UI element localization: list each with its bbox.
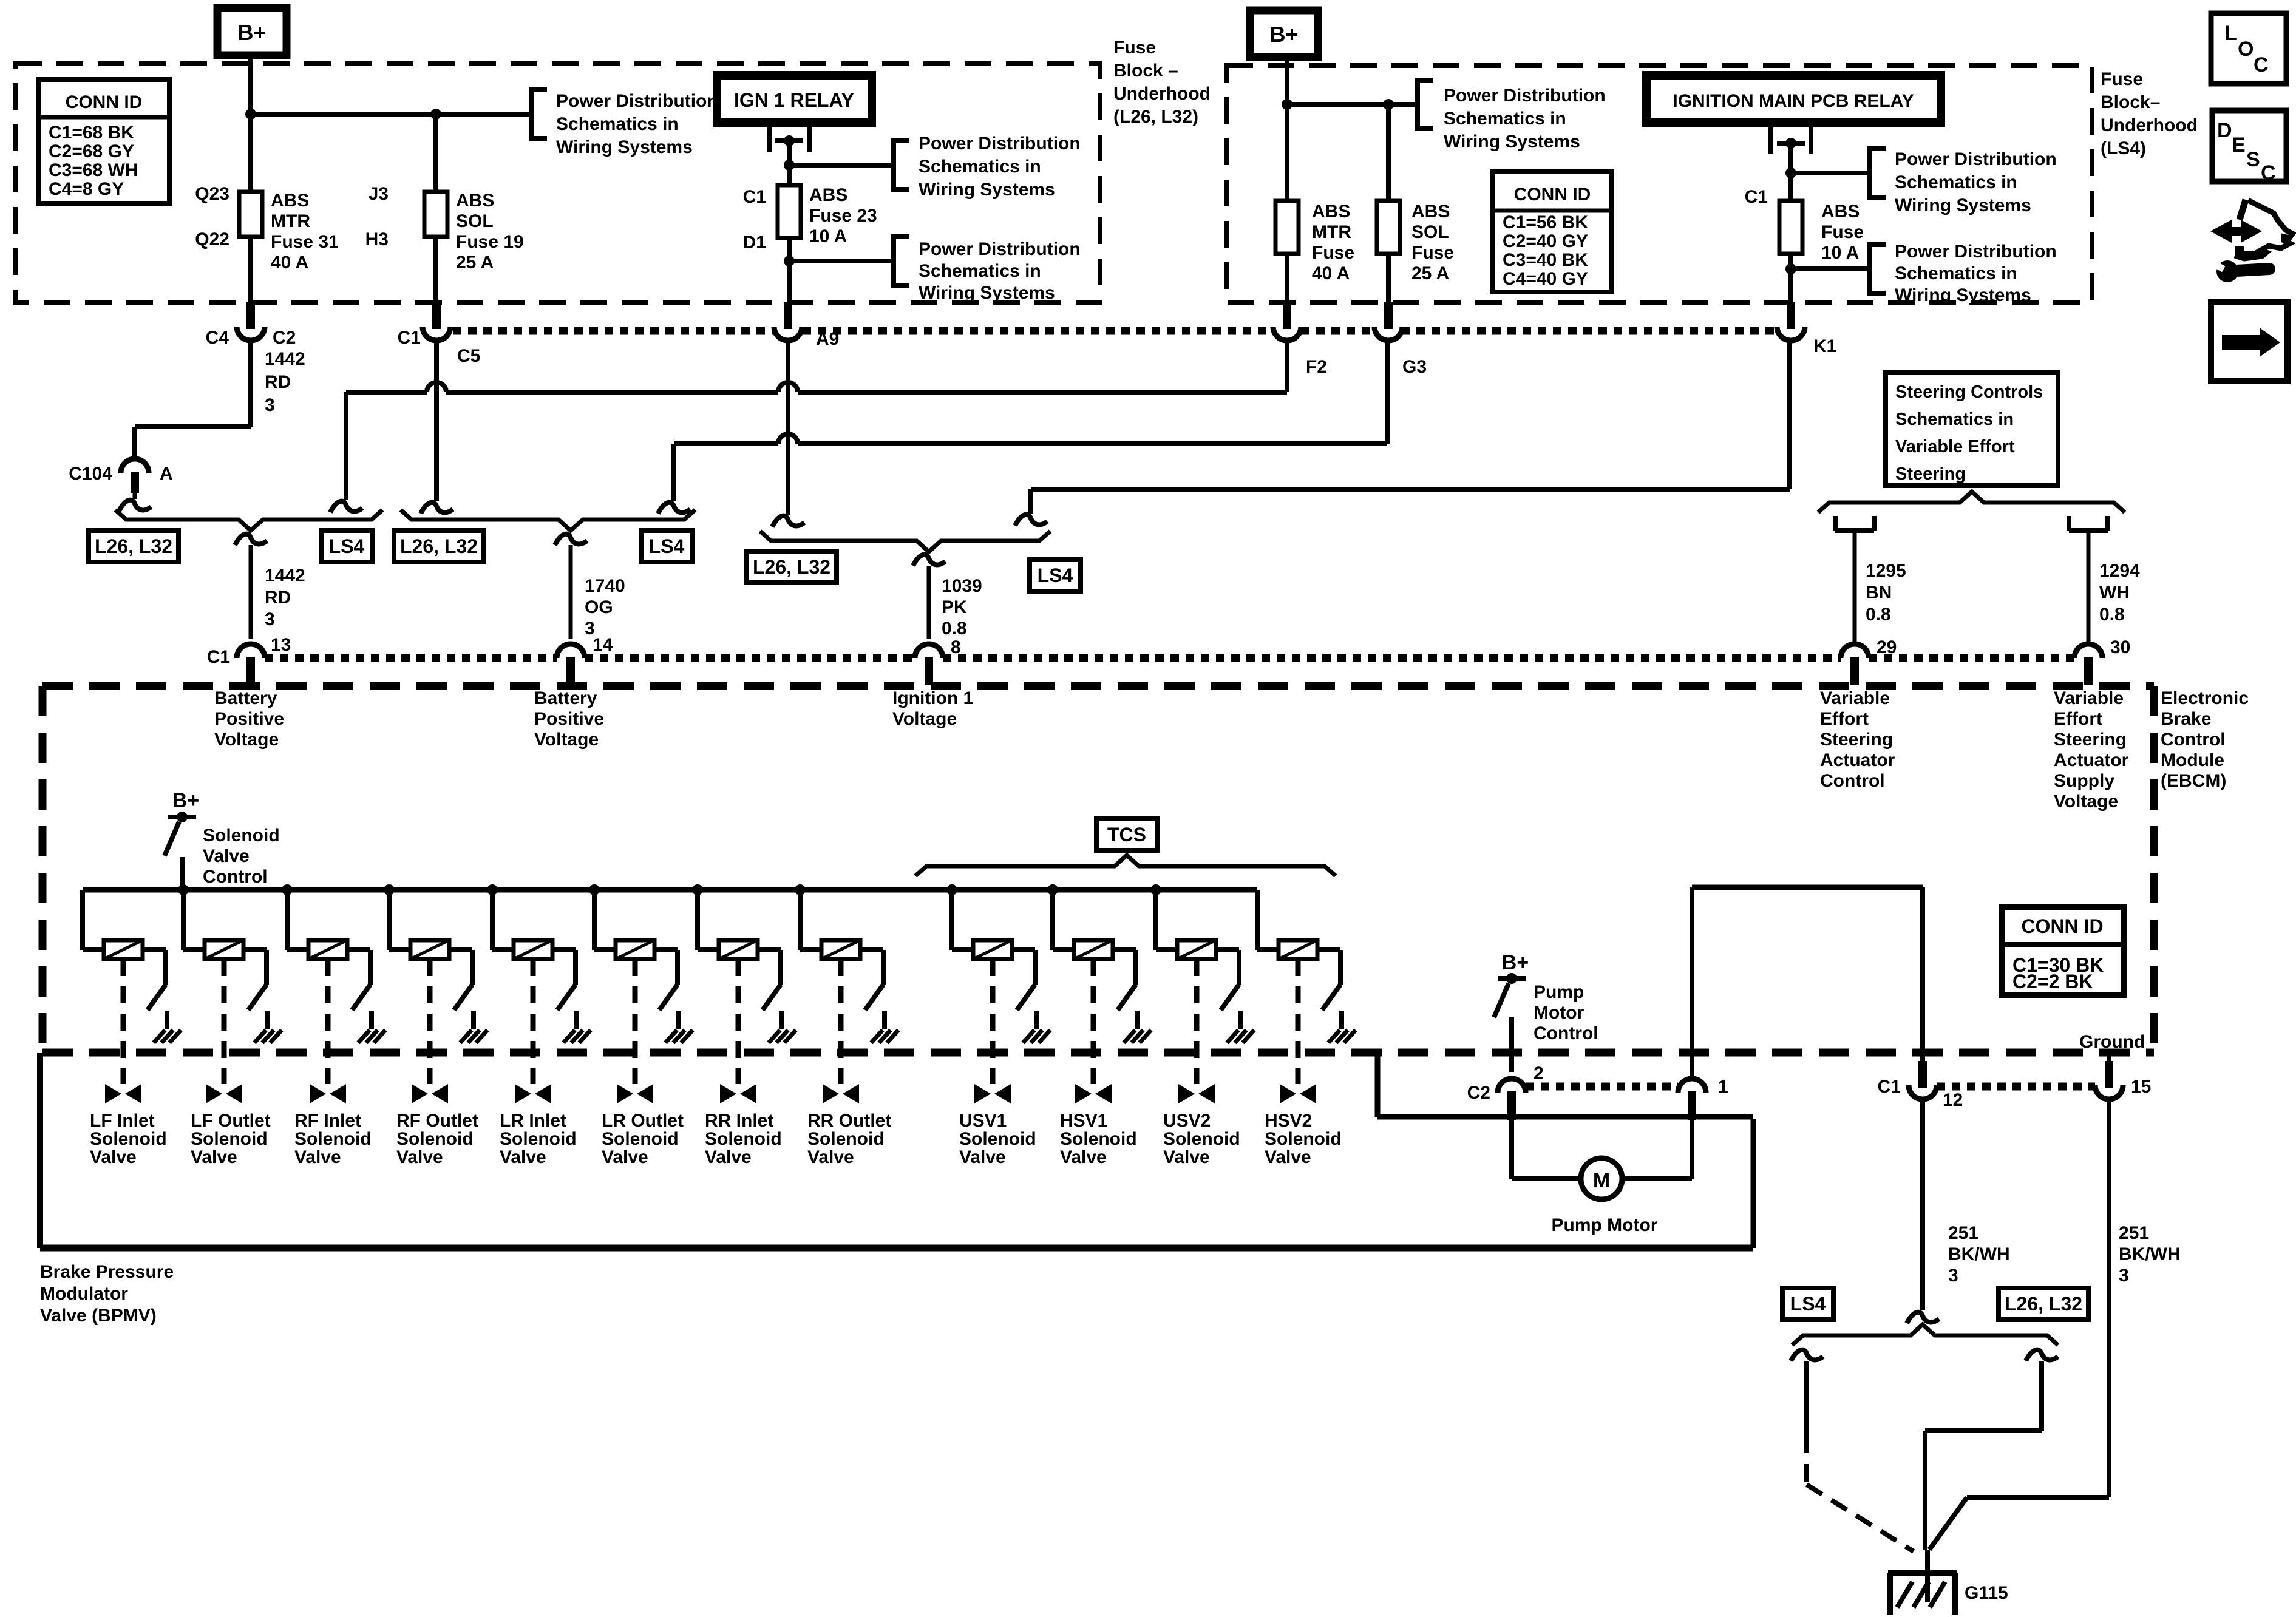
- svg-text:L: L: [2224, 22, 2237, 45]
- svg-text:Solenoid: Solenoid: [294, 1129, 372, 1149]
- svg-text:1039: 1039: [942, 576, 982, 596]
- svg-text:Solenoid: Solenoid: [203, 825, 280, 846]
- svg-text:ABS: ABS: [809, 185, 847, 205]
- svg-text:Motor: Motor: [1533, 1003, 1584, 1023]
- svg-text:Control: Control: [2161, 730, 2226, 750]
- svg-text:B+: B+: [237, 20, 266, 45]
- svg-text:G115: G115: [1965, 1583, 2008, 1603]
- svg-text:40 A: 40 A: [271, 253, 308, 273]
- svg-text:C104: C104: [69, 464, 112, 484]
- svg-text:Voltage: Voltage: [534, 730, 599, 750]
- svg-text:Schematics in: Schematics in: [1895, 263, 2017, 283]
- svg-text:Power Distribution: Power Distribution: [1895, 242, 2057, 262]
- svg-text:ABS: ABS: [1411, 202, 1450, 222]
- svg-text:Power Distribution: Power Distribution: [919, 134, 1081, 154]
- svg-text:Fuse 19: Fuse 19: [456, 232, 524, 252]
- svg-text:C2=40 GY: C2=40 GY: [1503, 231, 1588, 251]
- svg-text:12: 12: [1943, 1090, 1963, 1110]
- svg-text:0.8: 0.8: [942, 619, 967, 639]
- svg-text:C3=68 WH: C3=68 WH: [49, 160, 138, 180]
- svg-text:Fuse: Fuse: [2101, 69, 2143, 89]
- svg-text:Q23: Q23: [195, 184, 229, 204]
- svg-text:A: A: [160, 464, 173, 484]
- svg-text:Power Distribution: Power Distribution: [919, 239, 1081, 259]
- svg-text:Modulator: Modulator: [40, 1284, 128, 1304]
- svg-text:3: 3: [1948, 1266, 1958, 1286]
- svg-text:Steering: Steering: [1895, 464, 1966, 484]
- svg-text:Variable Effort: Variable Effort: [1895, 437, 2015, 456]
- svg-text:10 A: 10 A: [1821, 243, 1859, 263]
- svg-text:TCS: TCS: [1107, 824, 1146, 846]
- svg-text:Fuse: Fuse: [1113, 38, 1156, 58]
- svg-text:F2: F2: [1306, 357, 1327, 377]
- svg-text:Solenoid: Solenoid: [500, 1129, 577, 1149]
- svg-text:Wiring Systems: Wiring Systems: [1895, 195, 2031, 215]
- svg-text:Solenoid: Solenoid: [191, 1129, 268, 1149]
- svg-text:Block –: Block –: [1113, 61, 1178, 81]
- svg-text:CONN ID: CONN ID: [2021, 915, 2103, 937]
- svg-text:Valve: Valve: [191, 1147, 237, 1167]
- svg-text:C3=40 BK: C3=40 BK: [1503, 250, 1588, 270]
- svg-text:Voltage: Voltage: [892, 709, 957, 729]
- svg-text:Valve: Valve: [396, 1147, 443, 1167]
- svg-text:C4=40 GY: C4=40 GY: [1503, 269, 1588, 289]
- svg-text:30: 30: [2110, 637, 2130, 657]
- svg-text:Voltage: Voltage: [214, 730, 279, 750]
- svg-text:C1: C1: [398, 328, 421, 348]
- svg-text:Fuse: Fuse: [1312, 243, 1354, 263]
- svg-text:L26, L32: L26, L32: [2005, 1293, 2082, 1315]
- svg-text:Valve: Valve: [807, 1147, 854, 1167]
- svg-text:SOL: SOL: [1411, 222, 1449, 242]
- svg-text:Brake: Brake: [2161, 709, 2211, 729]
- svg-text:Variable: Variable: [1820, 688, 1890, 708]
- svg-text:Q22: Q22: [195, 229, 229, 249]
- svg-text:LS4: LS4: [649, 535, 685, 557]
- svg-text:Solenoid: Solenoid: [396, 1129, 474, 1149]
- svg-text:IGNITION MAIN PCB RELAY: IGNITION MAIN PCB RELAY: [1673, 91, 1914, 111]
- svg-text:C5: C5: [457, 346, 480, 366]
- svg-text:Fuse: Fuse: [1821, 222, 1864, 242]
- svg-text:Fuse 23: Fuse 23: [809, 206, 877, 226]
- svg-text:B+: B+: [1269, 22, 1298, 47]
- svg-text:Solenoid: Solenoid: [602, 1129, 679, 1149]
- svg-text:ABS: ABS: [1312, 202, 1350, 222]
- svg-text:S: S: [2246, 148, 2260, 171]
- svg-text:G3: G3: [1402, 357, 1427, 377]
- svg-text:Control: Control: [1533, 1023, 1598, 1043]
- svg-text:Module: Module: [2161, 750, 2224, 770]
- svg-text:Schematics in: Schematics in: [1444, 109, 1566, 129]
- svg-text:251: 251: [2119, 1223, 2149, 1243]
- svg-text:14: 14: [593, 635, 613, 655]
- svg-text:Solenoid: Solenoid: [1265, 1129, 1342, 1149]
- svg-text:O: O: [2238, 38, 2254, 61]
- svg-text:Wiring Systems: Wiring Systems: [1895, 285, 2031, 305]
- svg-text:Power Distribution: Power Distribution: [1444, 86, 1606, 106]
- svg-text:1295: 1295: [1866, 561, 1906, 581]
- svg-text:Steering: Steering: [1820, 730, 1893, 750]
- svg-text:Solenoid: Solenoid: [1163, 1129, 1240, 1149]
- svg-text:Valve: Valve: [1265, 1147, 1311, 1167]
- svg-text:(L26, L32): (L26, L32): [1113, 107, 1198, 127]
- svg-text:Block–: Block–: [2101, 92, 2160, 112]
- svg-text:L26, L32: L26, L32: [400, 535, 478, 557]
- svg-text:1: 1: [1718, 1077, 1728, 1097]
- svg-text:RD: RD: [265, 372, 291, 392]
- svg-text:A9: A9: [816, 329, 839, 349]
- svg-text:C: C: [2261, 161, 2276, 185]
- svg-text:LS4: LS4: [1038, 564, 1073, 586]
- svg-text:Supply: Supply: [2054, 771, 2114, 791]
- svg-text:M: M: [1593, 1169, 1610, 1192]
- svg-text:C1: C1: [1878, 1077, 1901, 1097]
- svg-text:LF Inlet: LF Inlet: [90, 1111, 155, 1131]
- svg-text:3: 3: [265, 395, 275, 415]
- svg-text:Schematics in: Schematics in: [556, 114, 679, 134]
- svg-text:C2=2 BK: C2=2 BK: [2012, 971, 2093, 992]
- svg-text:Solenoid: Solenoid: [90, 1129, 167, 1149]
- svg-text:B+: B+: [172, 789, 199, 812]
- svg-text:Power Distribution: Power Distribution: [1895, 149, 2057, 169]
- svg-text:C1=56 BK: C1=56 BK: [1503, 212, 1588, 232]
- svg-text:Power Distribution: Power Distribution: [556, 91, 718, 111]
- svg-text:Valve: Valve: [294, 1147, 341, 1167]
- svg-text:IGN 1 RELAY: IGN 1 RELAY: [734, 89, 854, 111]
- svg-text:Control: Control: [1820, 771, 1885, 791]
- svg-text:Solenoid: Solenoid: [1060, 1129, 1137, 1149]
- svg-text:L26, L32: L26, L32: [95, 535, 172, 557]
- svg-text:Underhood: Underhood: [2101, 115, 2198, 135]
- svg-text:BN: BN: [1866, 583, 1892, 603]
- svg-text:Schematics in: Schematics in: [1895, 172, 2017, 192]
- svg-text:Pump: Pump: [1533, 982, 1584, 1002]
- svg-text:Wiring Systems: Wiring Systems: [556, 137, 693, 157]
- svg-text:RF Outlet: RF Outlet: [396, 1111, 478, 1131]
- svg-text:C2: C2: [1467, 1083, 1490, 1103]
- svg-text:Pump Motor: Pump Motor: [1552, 1215, 1658, 1235]
- svg-text:25 A: 25 A: [1411, 263, 1449, 283]
- svg-text:Brake Pressure: Brake Pressure: [40, 1262, 174, 1282]
- svg-text:15: 15: [2131, 1077, 2151, 1097]
- svg-text:Valve (BPMV): Valve (BPMV): [40, 1306, 157, 1326]
- svg-text:(EBCM): (EBCM): [2161, 771, 2226, 791]
- svg-text:USV2: USV2: [1163, 1111, 1211, 1131]
- svg-text:L26, L32: L26, L32: [753, 556, 830, 578]
- svg-text:Valve: Valve: [1060, 1147, 1107, 1167]
- svg-text:Wiring Systems: Wiring Systems: [1444, 132, 1580, 152]
- svg-text:1442: 1442: [265, 566, 305, 586]
- svg-text:B+: B+: [1502, 951, 1529, 974]
- svg-text:Valve: Valve: [602, 1147, 648, 1167]
- svg-text:ABS: ABS: [456, 191, 494, 211]
- svg-text:C: C: [2254, 53, 2269, 76]
- svg-text:0.8: 0.8: [2099, 605, 2125, 625]
- svg-text:Valve: Valve: [705, 1147, 752, 1167]
- svg-text:Fuse 31: Fuse 31: [271, 232, 339, 252]
- svg-text:3: 3: [2119, 1266, 2129, 1286]
- svg-text:Valve: Valve: [90, 1147, 137, 1167]
- svg-text:Schematics in: Schematics in: [919, 261, 1041, 281]
- svg-text:10 A: 10 A: [809, 226, 847, 246]
- svg-text:LS4: LS4: [1790, 1293, 1826, 1315]
- svg-text:13: 13: [271, 635, 291, 655]
- svg-text:K1: K1: [1813, 336, 1836, 356]
- svg-text:Positive: Positive: [214, 709, 284, 729]
- svg-text:Effort: Effort: [2054, 709, 2102, 729]
- svg-text:BK/WH: BK/WH: [1948, 1244, 2010, 1264]
- svg-text:RD: RD: [265, 588, 291, 608]
- svg-text:Actuator: Actuator: [1820, 750, 1895, 770]
- svg-text:Valve: Valve: [500, 1147, 546, 1167]
- svg-text:WH: WH: [2099, 583, 2130, 603]
- svg-text:Steering Controls: Steering Controls: [1895, 382, 2043, 402]
- svg-text:Fuse: Fuse: [1411, 243, 1454, 263]
- svg-text:RF Inlet: RF Inlet: [294, 1111, 361, 1131]
- svg-text:HSV1: HSV1: [1060, 1111, 1107, 1131]
- svg-text:PK: PK: [942, 597, 967, 617]
- svg-text:OG: OG: [585, 597, 613, 617]
- svg-text:Valve: Valve: [959, 1147, 1006, 1167]
- svg-text:Control: Control: [203, 867, 268, 887]
- svg-text:Ignition 1: Ignition 1: [892, 688, 973, 708]
- svg-text:25 A: 25 A: [456, 253, 494, 273]
- svg-text:Wiring Systems: Wiring Systems: [919, 180, 1055, 200]
- svg-text:Ground: Ground: [2079, 1032, 2145, 1052]
- svg-text:Solenoid: Solenoid: [807, 1129, 885, 1149]
- svg-text:USV1: USV1: [959, 1111, 1007, 1131]
- svg-text:1740: 1740: [585, 576, 625, 596]
- svg-text:3: 3: [265, 609, 275, 629]
- svg-text:ABS: ABS: [271, 191, 309, 211]
- svg-text:C4=8 GY: C4=8 GY: [49, 179, 124, 199]
- svg-text:Battery: Battery: [214, 688, 277, 708]
- svg-text:1294: 1294: [2099, 561, 2140, 581]
- svg-text:C1=68 BK: C1=68 BK: [49, 123, 134, 143]
- svg-text:RR Inlet: RR Inlet: [705, 1111, 773, 1131]
- svg-text:Actuator: Actuator: [2054, 750, 2129, 770]
- svg-text:RR Outlet: RR Outlet: [807, 1111, 891, 1131]
- svg-text:Solenoid: Solenoid: [959, 1129, 1036, 1149]
- svg-text:Effort: Effort: [1820, 709, 1869, 729]
- svg-text:C1: C1: [1745, 187, 1768, 207]
- svg-text:1442: 1442: [265, 349, 305, 369]
- svg-text:Wiring Systems: Wiring Systems: [919, 283, 1055, 303]
- svg-text:BK/WH: BK/WH: [2119, 1244, 2181, 1264]
- svg-text:Valve: Valve: [203, 846, 250, 866]
- svg-text:MTR: MTR: [271, 211, 310, 231]
- svg-text:C4: C4: [206, 328, 229, 348]
- svg-text:251: 251: [1948, 1223, 1978, 1243]
- svg-text:LR Inlet: LR Inlet: [500, 1111, 566, 1131]
- svg-text:CONN ID: CONN ID: [1514, 185, 1591, 205]
- svg-text:Variable: Variable: [2054, 688, 2124, 708]
- svg-text:C2: C2: [273, 328, 296, 348]
- svg-text:MTR: MTR: [1312, 222, 1351, 242]
- svg-text:SOL: SOL: [456, 211, 494, 231]
- svg-text:E: E: [2232, 134, 2246, 157]
- svg-text:Steering: Steering: [2054, 730, 2127, 750]
- svg-text:HSV2: HSV2: [1265, 1111, 1312, 1131]
- svg-text:J3: J3: [369, 184, 389, 204]
- svg-text:D1: D1: [743, 232, 766, 253]
- svg-text:LF Outlet: LF Outlet: [191, 1111, 271, 1131]
- svg-text:ABS: ABS: [1821, 202, 1860, 222]
- svg-text:0.8: 0.8: [1866, 605, 1891, 625]
- svg-text:Solenoid: Solenoid: [705, 1129, 782, 1149]
- svg-text:Positive: Positive: [534, 709, 604, 729]
- svg-text:CONN ID: CONN ID: [66, 92, 143, 112]
- svg-text:LS4: LS4: [329, 535, 365, 557]
- svg-text:2: 2: [1533, 1063, 1544, 1083]
- svg-text:40 A: 40 A: [1312, 263, 1350, 283]
- svg-text:(LS4): (LS4): [2101, 138, 2146, 158]
- svg-text:Battery: Battery: [534, 688, 597, 708]
- svg-text:C1: C1: [207, 647, 230, 667]
- svg-text:LR Outlet: LR Outlet: [602, 1111, 684, 1131]
- svg-text:D: D: [2217, 119, 2232, 142]
- svg-text:Valve: Valve: [1163, 1147, 1210, 1167]
- svg-text:C1: C1: [743, 187, 766, 207]
- svg-text:H3: H3: [365, 229, 389, 249]
- svg-text:Voltage: Voltage: [2054, 792, 2118, 812]
- svg-text:Schematics in: Schematics in: [1895, 410, 2014, 429]
- svg-text:C2=68 GY: C2=68 GY: [49, 141, 134, 161]
- svg-text:Underhood: Underhood: [1113, 84, 1211, 104]
- svg-text:Schematics in: Schematics in: [919, 157, 1041, 177]
- svg-text:Electronic: Electronic: [2161, 688, 2249, 708]
